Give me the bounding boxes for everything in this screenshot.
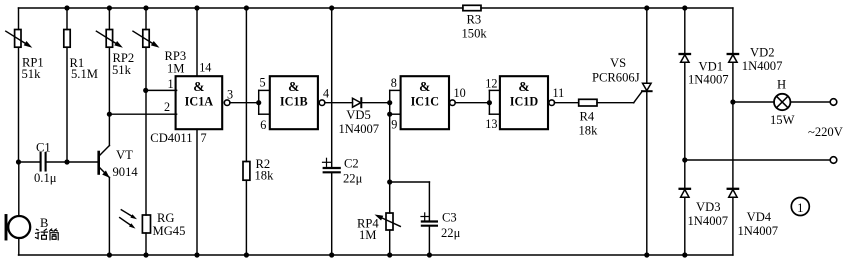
svg-text:VD1: VD1 bbox=[699, 60, 724, 74]
diode VD1 bbox=[680, 8, 729, 160]
capacitor C3 bbox=[390, 182, 461, 255]
svg-text:1M: 1M bbox=[359, 228, 377, 242]
terminal upper bbox=[830, 99, 837, 106]
svg-text:0.1μ: 0.1μ bbox=[34, 171, 57, 185]
svg-text:7: 7 bbox=[201, 131, 207, 145]
svg-text:5: 5 bbox=[260, 76, 266, 90]
svg-text:1: 1 bbox=[168, 77, 174, 91]
diode VD2 bbox=[728, 8, 783, 102]
svg-text:10: 10 bbox=[454, 86, 466, 100]
resistor R2 bbox=[243, 8, 274, 255]
potentiometer RP3 bbox=[133, 8, 186, 215]
svg-text:2: 2 bbox=[164, 100, 170, 114]
svg-text:1N4007: 1N4007 bbox=[742, 59, 783, 73]
wire IC1A pin 1 bbox=[146, 77, 177, 91]
wire IC1A pin 14 bbox=[197, 8, 211, 76]
svg-text:22μ: 22μ bbox=[441, 226, 461, 240]
svg-text:8: 8 bbox=[391, 76, 397, 90]
op IC1C (NAND gate) bbox=[390, 76, 466, 132]
wire IC1A out to IC1B bbox=[230, 102, 259, 104]
potentiometer RP4 bbox=[357, 114, 400, 255]
potentiometer RP2 bbox=[96, 8, 134, 146]
svg-text:1N4007: 1N4007 bbox=[688, 214, 729, 228]
svg-text:6: 6 bbox=[260, 118, 266, 132]
svg-text:IC1C: IC1C bbox=[411, 95, 439, 109]
svg-text:VD5: VD5 bbox=[346, 108, 371, 122]
svg-text:VD2: VD2 bbox=[750, 46, 775, 60]
svg-text:9: 9 bbox=[391, 118, 397, 132]
label 话筒 (hand drawn) bbox=[36, 229, 59, 240]
svg-text:VD3: VD3 bbox=[696, 200, 721, 214]
svg-text:H: H bbox=[777, 78, 786, 92]
wire IC1A pin 2 bbox=[109, 100, 176, 114]
svg-text:IC1B: IC1B bbox=[280, 95, 308, 109]
diode VD5 bbox=[339, 98, 390, 136]
svg-text:13: 13 bbox=[485, 117, 497, 131]
wire IC1B out bbox=[325, 102, 353, 104]
diode VD4 bbox=[728, 102, 778, 255]
wire AC lower bbox=[685, 159, 830, 161]
svg-text:C2: C2 bbox=[344, 157, 359, 171]
op IC1D (NAND gate) bbox=[485, 76, 564, 131]
svg-text:PCR606J: PCR606J bbox=[592, 71, 640, 85]
svg-text:22μ: 22μ bbox=[343, 172, 363, 186]
svg-text:1N4007: 1N4007 bbox=[738, 224, 779, 238]
transistor VT bbox=[99, 146, 139, 256]
svg-text:B: B bbox=[40, 216, 48, 230]
wire top rail right of R3 bbox=[481, 7, 733, 9]
svg-text:C3: C3 bbox=[442, 211, 457, 225]
svg-text:1N4007: 1N4007 bbox=[688, 73, 729, 87]
label circled 1 bbox=[791, 198, 809, 216]
photoresistor RG bbox=[120, 210, 186, 255]
svg-text:&: & bbox=[288, 79, 299, 94]
svg-text:R3: R3 bbox=[467, 13, 482, 27]
svg-text:VT: VT bbox=[116, 148, 133, 162]
svg-text:18k: 18k bbox=[579, 124, 599, 138]
svg-text:&: & bbox=[193, 79, 204, 94]
svg-text:1: 1 bbox=[797, 201, 803, 215]
svg-text:&: & bbox=[518, 79, 529, 94]
thyristor VS bbox=[592, 8, 652, 255]
svg-text:18k: 18k bbox=[255, 169, 275, 183]
svg-text:14: 14 bbox=[199, 61, 211, 75]
terminal lower bbox=[830, 157, 837, 164]
svg-text:RG: RG bbox=[157, 211, 175, 225]
wire bottom rail bbox=[19, 254, 733, 256]
svg-text:IC1A: IC1A bbox=[185, 95, 214, 109]
svg-text:4: 4 bbox=[323, 87, 329, 101]
diode VD3 bbox=[680, 160, 728, 255]
svg-text:&: & bbox=[419, 79, 430, 94]
svg-text:15W: 15W bbox=[770, 113, 795, 127]
svg-text:12: 12 bbox=[485, 77, 497, 91]
capacitor C1 bbox=[19, 141, 98, 186]
svg-text:VS: VS bbox=[610, 56, 626, 70]
svg-text:C1: C1 bbox=[36, 141, 51, 155]
resistor R3 bbox=[462, 5, 488, 40]
svg-text:150k: 150k bbox=[462, 27, 488, 41]
capacitor C2 bbox=[323, 8, 363, 255]
svg-text:R4: R4 bbox=[580, 110, 595, 124]
svg-text:~220V: ~220V bbox=[808, 125, 843, 139]
svg-text:MG45: MG45 bbox=[153, 224, 186, 238]
svg-text:VD4: VD4 bbox=[747, 210, 772, 224]
lamp H bbox=[733, 78, 830, 128]
resistor R4 bbox=[555, 99, 634, 137]
svg-text:51k: 51k bbox=[112, 63, 132, 77]
op IC1B (NAND gate) bbox=[259, 76, 329, 133]
wire top rail left of R3 bbox=[19, 7, 463, 9]
op IC1A (NAND gate) bbox=[176, 76, 233, 129]
svg-text:3: 3 bbox=[227, 88, 233, 102]
svg-text:51k: 51k bbox=[22, 67, 42, 81]
resistor R1 bbox=[64, 8, 98, 162]
wire IC1C out to IC1D bbox=[455, 102, 489, 104]
microphone B bbox=[6, 162, 48, 255]
wire IC1A pin 7 bbox=[150, 129, 206, 255]
svg-text:5.1M: 5.1M bbox=[71, 67, 98, 81]
svg-text:11: 11 bbox=[553, 86, 565, 100]
svg-text:1N4007: 1N4007 bbox=[339, 122, 380, 136]
svg-text:CD4011: CD4011 bbox=[150, 131, 192, 145]
svg-text:IC1D: IC1D bbox=[510, 95, 539, 109]
svg-text:1M: 1M bbox=[167, 62, 185, 76]
potentiometer RP1 bbox=[6, 8, 44, 162]
svg-text:9014: 9014 bbox=[113, 165, 139, 179]
